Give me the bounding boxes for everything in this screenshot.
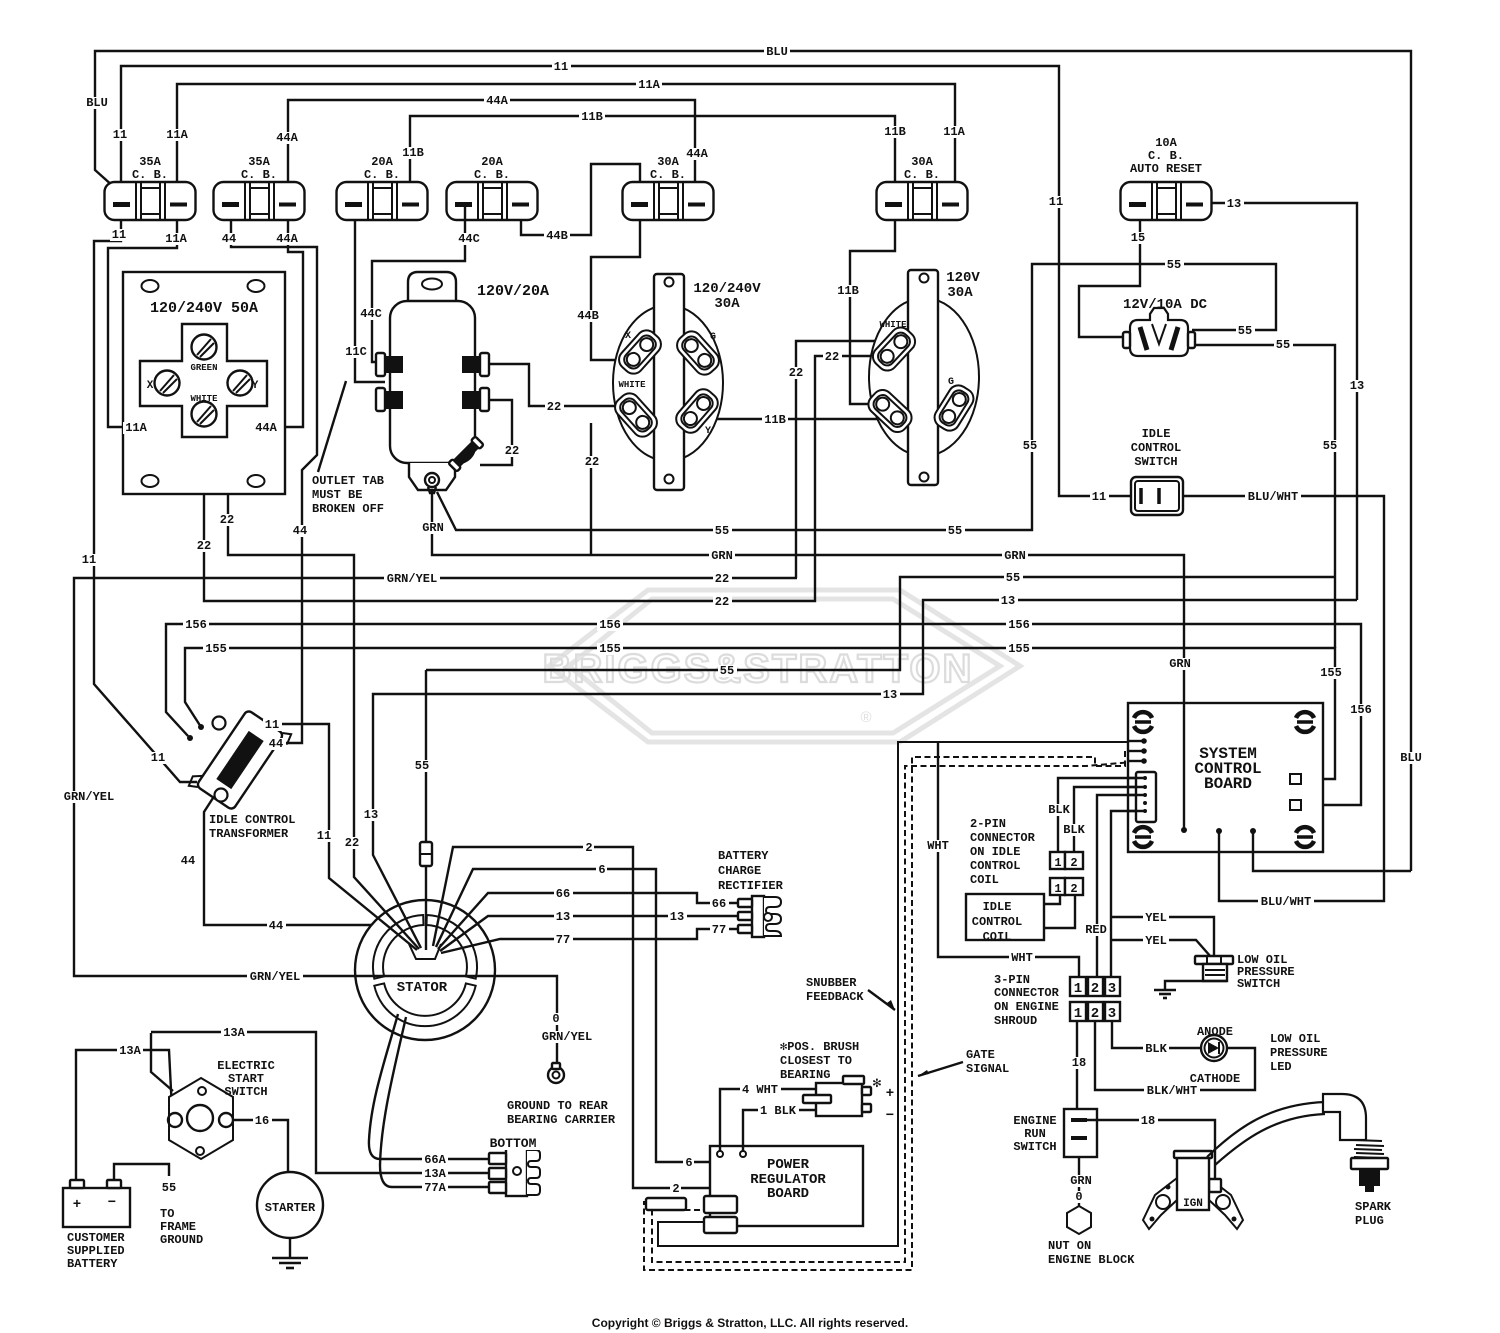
svg-text:44: 44 [293,524,307,538]
svg-text:18: 18 [1141,1114,1155,1128]
receptacle 50A face outline [140,324,267,437]
svg-text:13: 13 [883,688,897,702]
outlet bottom tab [409,463,455,490]
svg-text:120/240V 50A: 120/240V 50A [150,300,258,317]
circuit breaker CB6 30A [877,182,968,220]
wire RED SCB to 3-pin [1097,795,1144,977]
svg-text:13: 13 [556,910,570,924]
wire WHT brush feed to 3-pin [938,742,1079,977]
svg-text:13A: 13A [424,1167,446,1181]
wire 55 stator to idle switch bus [426,577,1335,670]
svg-text:11: 11 [112,228,126,242]
wire BLU/WHT idle switch to board [1183,496,1384,901]
wire 66 stator to rectifier [438,893,738,949]
wire coil to 2-pin 1 [1044,895,1060,904]
wire 155 bus [185,648,1335,779]
wire BLU main bus [95,51,1411,871]
svg-text:44A: 44A [276,131,298,145]
circuit breaker CB1 35A [105,182,196,220]
svg-text:22: 22 [197,539,211,553]
svg-text:X: X [625,331,631,342]
svg-text:55: 55 [948,524,962,538]
svg-text:Y: Y [705,426,711,437]
prong slot G 120V [931,382,977,435]
svg-text:11A: 11A [166,128,188,142]
svg-text:55: 55 [720,664,734,678]
svg-text:GRN/YEL: GRN/YEL [542,1030,592,1044]
wire 11C CB3 to outlet [355,220,385,382]
svg-text:11C: 11C [345,345,367,359]
strap screw holes [665,278,674,287]
wire 11B receptacle Y to 120V receptacle [704,418,892,420]
wire 55 DC bus [437,264,1276,530]
svg-text:CONNECTOR: CONNECTOR [994,986,1060,1000]
svg-text:156: 156 [1350,703,1372,717]
wire GRN/YEL bus [74,578,797,1067]
svg-text:2: 2 [672,1182,679,1196]
wire 66A stator to bottom connector [369,1014,489,1159]
ground symbol pressure switch [1154,989,1176,992]
svg-text:11: 11 [265,718,279,732]
svg-text:SPARK: SPARK [1355,1200,1392,1214]
circuit breaker CB4 20A [447,182,538,220]
svg-text:155: 155 [599,642,621,656]
outlet terminal screws left [376,353,385,376]
wire BLK SCB to 2-pin second [1074,787,1144,852]
svg-text:55: 55 [1276,338,1290,352]
wire 44C CB4 to outlet [372,206,465,362]
svg-text:G: G [710,332,716,343]
coil ignition terminal [1209,1179,1221,1192]
svg-text:6: 6 [685,1156,692,1170]
svg-text:C. B.: C. B. [904,168,940,182]
wire 18 to engine run switch [1076,1021,1078,1109]
component fuse on 55 wire [420,842,432,866]
circuit breaker CB2 35A [214,182,305,220]
svg-text:CONTROL: CONTROL [970,859,1020,873]
wire 22 neutral bus [204,356,881,601]
wire 13A start switch branch [151,1033,173,1091]
svg-text:66A: 66A [424,1153,446,1167]
prong slot Y 240V [672,385,722,437]
wire 13 stator to rectifier [440,916,738,951]
svg-text:LED: LED [1270,1060,1292,1074]
svg-text:BOTTOM: BOTTOM [490,1136,537,1151]
svg-text:GROUND: GROUND [160,1233,203,1247]
svg-text:22: 22 [715,595,729,609]
svg-text:BEARING: BEARING [780,1068,830,1082]
svg-text:22: 22 [547,400,561,414]
svg-text:20A: 20A [371,155,393,169]
strap screw holes 120V [920,274,929,283]
wire 16 start switch to starter [232,1120,288,1172]
svg-text:OUTLET TAB: OUTLET TAB [312,474,384,488]
svg-text:BLK: BLK [1063,823,1085,837]
wire 11A bus [177,84,955,203]
outlet terminal screws right [480,353,489,376]
svg-text:3: 3 [1108,1006,1116,1022]
svg-text:1: 1 [1074,981,1082,997]
svg-text:30A: 30A [947,285,973,301]
svg-text:11: 11 [113,128,127,142]
label BOTTOM [487,1137,539,1150]
connector 3-pin row 1 [1070,977,1086,996]
svg-text:GRN: GRN [1169,657,1191,671]
wire YEL to pressure switch [1111,917,1214,955]
svg-text:156: 156 [185,618,207,632]
svg-text:+: + [886,1086,894,1102]
svg-text:2-PIN: 2-PIN [970,817,1006,831]
brush assembly [816,1083,862,1116]
wire pressure switch to ground [1165,981,1203,990]
svg-text:156: 156 [599,618,621,632]
wire 11A below CB1 to X terminal [108,220,177,427]
wire 11B bus [410,116,895,204]
svg-text:66: 66 [712,897,726,911]
spark plug boot [1323,1094,1366,1140]
svg-text:44C: 44C [458,232,480,246]
svg-text:13: 13 [670,910,684,924]
prong slot G 240V [673,327,723,379]
svg-text:COIL: COIL [970,873,999,887]
svg-text:WHITE: WHITE [190,394,218,404]
svg-text:44: 44 [269,737,283,751]
svg-text:44A: 44A [276,232,298,246]
svg-text:SWITCH: SWITCH [224,1085,267,1099]
svg-text:11A: 11A [943,125,965,139]
wire starter to ground [289,1238,291,1258]
wire 44 transformer to stator [204,798,371,925]
svg-text:20A: 20A [481,155,503,169]
SCB left edge pins [1141,738,1147,744]
wire 55 battery to frame ground [114,1164,169,1180]
svg-text:13A: 13A [223,1026,245,1040]
spark plug ribs [1354,1140,1382,1141]
svg-text:BEARING CARRIER: BEARING CARRIER [507,1113,616,1127]
svg-text:X: X [147,380,154,392]
svg-text:2: 2 [1070,882,1077,896]
svg-text:SWITCH: SWITCH [1013,1140,1056,1154]
svg-text:FEEDBACK: FEEDBACK [806,990,864,1004]
svg-text:155: 155 [205,642,227,656]
connector BOTTOM stator plug [506,1148,527,1196]
svg-text:Copyright © Briggs & Stratton,: Copyright © Briggs & Stratton, LLC. All … [592,1316,908,1330]
circuit breaker CB3 20A [337,182,428,220]
snubber connector stubs [646,1198,686,1210]
terminal 1 on power regulator [740,1151,746,1157]
receptacle 120V 30A body [869,298,979,456]
svg-text:STATOR: STATOR [397,980,448,996]
svg-text:BATTERY: BATTERY [67,1257,118,1271]
svg-text:✻POS. BRUSH: ✻POS. BRUSH [780,1040,859,1054]
svg-text:C. B.: C. B. [241,168,277,182]
svg-text:1 BLK: 1 BLK [760,1104,797,1118]
svg-text:ON ENGINE: ON ENGINE [994,1000,1059,1014]
svg-text:11B: 11B [837,284,859,298]
screw SCB top-left [1134,712,1152,718]
svg-text:GREEN: GREEN [190,363,217,373]
svg-text:ENGINE: ENGINE [1013,1114,1056,1128]
connector 12V DC body [1130,308,1188,356]
svg-text:GRN: GRN [1070,1174,1092,1188]
svg-text:11: 11 [1092,490,1106,504]
svg-text:11A: 11A [165,232,187,246]
svg-text:11B: 11B [764,413,786,427]
svg-text:0: 0 [1075,1190,1082,1204]
wire GRN ground bus [432,487,1184,830]
svg-text:44: 44 [222,232,236,246]
svg-text:ELECTRIC: ELECTRIC [217,1059,275,1073]
svg-text:CHARGE: CHARGE [718,864,761,878]
wire stubs into SCB (overlay) [1128,740,1144,742]
svg-text:Y: Y [252,380,259,392]
svg-text:44C: 44C [360,307,382,321]
svg-text:22: 22 [220,513,234,527]
svg-text:66: 66 [556,887,570,901]
transformer idle control [187,702,293,818]
svg-text:IDLE: IDLE [1142,427,1171,441]
svg-text:44B: 44B [546,229,568,243]
outlet 120V/20A body [390,301,475,463]
connector 3-pin row 2 [1070,1002,1086,1021]
svg-text:GRN: GRN [422,521,444,535]
svg-text:11B: 11B [581,110,603,124]
svg-text:77: 77 [556,933,570,947]
svg-text:WHT: WHT [1011,951,1033,965]
svg-text:44: 44 [181,854,195,868]
svg-text:77A: 77A [424,1181,446,1195]
wire 55 stator feed [425,670,427,950]
outlet 120V/20A top tab [408,272,456,302]
svg-text:IGN: IGN [1183,1198,1203,1210]
svg-text:CONNECTOR: CONNECTOR [970,831,1036,845]
svg-text:WHITE: WHITE [618,380,646,390]
svg-text:CLOSEST TO: CLOSEST TO [780,1054,852,1068]
terminal screw Y [228,371,253,396]
spark plug body [1359,1169,1380,1186]
screw SCB bottom-right [1296,827,1314,833]
svg-text:CONTROL: CONTROL [972,915,1022,929]
receptacle 120/240V 30A strap [654,274,684,490]
svg-text:11: 11 [317,829,331,843]
svg-text:BLK/WHT: BLK/WHT [1147,1084,1197,1098]
svg-text:3-PIN: 3-PIN [994,973,1030,987]
wire 77 stator to rectifier [441,929,738,953]
outlet ground ring terminal [425,473,439,487]
wire BLK SCB to 2-pin [1058,778,1144,852]
node transformer pin 156 [187,735,193,741]
svg-text:BOARD: BOARD [767,1186,809,1202]
nut on engine block [1067,1206,1091,1234]
wire 11 top bus [121,66,1131,496]
motor starter [257,1172,323,1238]
svg-text:WHT: WHT [927,839,949,853]
svg-text:RED: RED [1085,923,1107,937]
wire 2 stator to power regulator [433,847,710,1188]
node BLU/WHT terminal on board [1216,828,1222,834]
svg-text:55: 55 [715,524,729,538]
wire 44A below CB2 to Y terminal [243,220,303,427]
board system control [1128,703,1323,852]
svg-text:COIL: COIL [983,930,1012,944]
svg-text:BLK: BLK [1145,1042,1167,1056]
svg-text:SNUBBER: SNUBBER [806,976,857,990]
svg-text:SIGNAL: SIGNAL [966,1062,1009,1076]
svg-text:SWITCH: SWITCH [1237,977,1280,991]
svg-text:SUPPLIED: SUPPLIED [67,1244,125,1258]
svg-text:BLU/WHT: BLU/WHT [1248,490,1298,504]
svg-text:55: 55 [1023,439,1037,453]
svg-text:155: 155 [1320,666,1342,680]
svg-text:13: 13 [364,808,378,822]
wire 22 receptacle white to GRN bus [590,423,592,554]
svg-text:+: + [73,1197,81,1213]
svg-text:55: 55 [415,759,429,773]
svg-text:CONTROL: CONTROL [1131,441,1181,455]
svg-text:22: 22 [789,366,803,380]
wire 44B CB4 to CB5 [521,164,640,235]
switch electric start [169,1078,233,1159]
svg-text:✻: ✻ [873,1076,882,1092]
svg-text:156: 156 [1008,618,1030,632]
svg-text:FRAME: FRAME [160,1220,196,1234]
switch idle control [1131,477,1183,515]
wire YEL to pressure switch second [1111,940,1211,957]
wire 55 loop at 12V connector [1079,264,1140,337]
svg-text:155: 155 [1008,642,1030,656]
prong slot WHITE 240V [611,389,661,441]
svg-text:ANODE: ANODE [1197,1025,1233,1039]
snubber shield inner dashed [652,761,1144,1262]
svg-text:13: 13 [1350,379,1364,393]
svg-text:PLUG: PLUG [1355,1214,1384,1228]
receptacle 50A mounting holes [142,280,159,292]
svg-text:30A: 30A [657,155,679,169]
svg-text:GROUND TO REAR: GROUND TO REAR [507,1099,609,1113]
circuit breaker CB5 30A [623,182,714,220]
terminal ring ground to rear bearing carrier [548,1067,564,1083]
LED low oil pressure [1201,1035,1227,1061]
svg-text:2: 2 [585,841,592,855]
svg-text:22: 22 [715,572,729,586]
label stator [394,980,450,994]
coil idle control box [966,894,1044,940]
wire BLK to LED anode [1112,1021,1201,1048]
wire coil to 2-pin 2 [1044,895,1075,928]
wire 22 to 30A receptacle white [796,341,894,578]
svg-text:30A: 30A [714,296,740,312]
svg-text:SHROUD: SHROUD [994,1014,1037,1028]
wire 13 from CB7 [1201,203,1357,600]
rectifier battery charge [752,896,764,937]
svg-text:15: 15 [1131,231,1145,245]
svg-text:2: 2 [1091,1006,1099,1022]
wire 11 transformer to stator [243,724,417,950]
svg-text:CUSTOMER: CUSTOMER [67,1231,125,1245]
snubber shield outer dashed [644,751,1144,1270]
wire 13 bus [373,600,1357,948]
svg-text:RECTIFIER: RECTIFIER [718,879,784,893]
wire 13A battery to start switch [76,1050,172,1180]
svg-text:0: 0 [552,1012,559,1026]
terminal screw X [155,371,180,396]
svg-text:SWITCH: SWITCH [1134,455,1177,469]
svg-text:POWER: POWER [767,1157,810,1173]
wire 77A stator to bottom connector [380,1017,489,1187]
svg-text:55: 55 [162,1181,176,1195]
svg-text:BLU: BLU [86,96,108,110]
terminal screw WHITE [192,402,217,427]
wire YEL SCB feed [1111,811,1144,977]
svg-text:PRESSURE: PRESSURE [1270,1046,1328,1060]
svg-text:55: 55 [1323,439,1337,453]
svg-text:C. B.: C. B. [1148,149,1184,163]
board power regulator [710,1146,863,1226]
wire 11 below CB1 [94,220,197,782]
svg-text:18: 18 [1072,1056,1086,1070]
svg-text:YEL: YEL [1145,911,1167,925]
svg-text:35A: 35A [248,155,270,169]
svg-text:TO: TO [160,1207,174,1221]
wire 55 to system control board [1192,345,1335,648]
svg-text:2: 2 [1091,981,1099,997]
svg-text:BLU/WHT: BLU/WHT [1261,895,1311,909]
svg-text:GRN/YEL: GRN/YEL [64,790,114,804]
wire BLU board to right bus [1253,831,1411,871]
pointer snubber feedback [868,990,895,1010]
coil ignition body [1177,1157,1209,1210]
svg-text:G: G [948,377,954,388]
svg-text:11: 11 [554,60,568,74]
svg-text:13: 13 [1001,594,1015,608]
svg-text:1: 1 [1054,882,1061,896]
svg-text:IDLE CONTROL: IDLE CONTROL [209,813,295,827]
svg-text:77: 77 [712,923,726,937]
svg-text:11: 11 [82,553,96,567]
svg-text:13A: 13A [119,1044,141,1058]
svg-text:6: 6 [598,863,605,877]
prong slot WHITE 120V [869,323,919,374]
spark plug wire [1207,1102,1325,1157]
svg-text:44: 44 [269,919,283,933]
svg-text:ENGINE BLOCK: ENGINE BLOCK [1048,1253,1135,1267]
svg-text:CATHODE: CATHODE [1190,1072,1240,1086]
svg-text:11A: 11A [125,421,147,435]
svg-text:BATTERY: BATTERY [718,849,769,863]
svg-text:BLK: BLK [1048,803,1070,817]
svg-text:22: 22 [345,836,359,850]
svg-text:LOW OIL: LOW OIL [1270,1032,1320,1046]
connector 2-pin row 2 [1050,878,1065,895]
svg-text:120V/20A: 120V/20A [477,283,549,300]
wire 6 stator to power regulator [436,869,710,1162]
svg-text:10A: 10A [1155,136,1177,150]
stator winding assembly [355,900,495,1040]
svg-text:55: 55 [1167,258,1181,272]
pointer outlet tab note [318,381,346,472]
switch engine run [1064,1109,1097,1157]
svg-text:NUT ON: NUT ON [1048,1239,1091,1253]
svg-text:11: 11 [1049,195,1063,209]
SCB right pins [1290,774,1301,784]
coil ignition right wing [1209,1178,1243,1229]
svg-text:MUST BE: MUST BE [312,488,362,502]
screw SCB bottom-left [1134,827,1152,833]
svg-text:GRN: GRN [711,549,733,563]
svg-text:STARTER: STARTER [265,1201,316,1215]
wire 13A start switch to bottom connector [151,1032,489,1173]
svg-text:13: 13 [1227,197,1241,211]
